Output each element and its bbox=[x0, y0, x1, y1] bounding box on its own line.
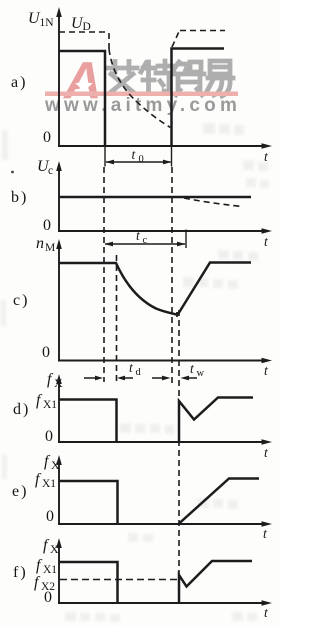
svg-text:D: D bbox=[83, 21, 91, 33]
svg-text:X1: X1 bbox=[43, 564, 57, 576]
svg-text:c: c bbox=[143, 235, 148, 246]
svg-text:0: 0 bbox=[42, 344, 50, 361]
svg-text:0: 0 bbox=[43, 129, 51, 146]
svg-text:d: d bbox=[136, 367, 142, 378]
svg-text:X: X bbox=[54, 376, 63, 390]
svg-text:www.aitmy.com: www.aitmy.com bbox=[44, 95, 241, 116]
svg-text:w: w bbox=[197, 368, 205, 379]
svg-text:a): a) bbox=[11, 74, 27, 91]
svg-text:d): d) bbox=[13, 401, 30, 418]
svg-text:X1: X1 bbox=[43, 399, 57, 411]
svg-text:0: 0 bbox=[45, 428, 53, 445]
svg-text:b): b) bbox=[11, 189, 28, 206]
svg-text:M: M bbox=[45, 242, 55, 254]
svg-text:0: 0 bbox=[139, 154, 144, 165]
svg-text:f): f) bbox=[13, 564, 28, 581]
svg-text:c): c) bbox=[13, 292, 29, 309]
svg-text:X: X bbox=[50, 542, 59, 556]
svg-text:0: 0 bbox=[43, 217, 51, 234]
svg-text:X1: X1 bbox=[42, 478, 56, 490]
svg-text:0: 0 bbox=[44, 589, 52, 606]
svg-text:c: c bbox=[48, 165, 53, 177]
svg-text:X: X bbox=[51, 458, 60, 472]
svg-text:e): e) bbox=[12, 483, 28, 500]
svg-text:1N: 1N bbox=[40, 17, 55, 29]
svg-text:n: n bbox=[36, 235, 44, 252]
svg-text:0: 0 bbox=[46, 508, 54, 525]
